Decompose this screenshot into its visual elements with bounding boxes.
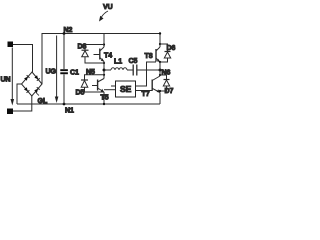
voltage arrow UN — [11, 48, 13, 101]
bridge diode mark TL — [24, 75, 29, 81]
svg-text:VU: VU — [103, 4, 113, 11]
node tee D6 bottom — [159, 61, 161, 63]
wire bridge left vertex to bottom rail — [17, 84, 22, 104]
terminal bottom — [7, 109, 13, 115]
load line right — [137, 69, 160, 71]
load line left — [104, 69, 111, 71]
node right top corner — [159, 32, 161, 34]
top rail N2 — [42, 33, 160, 35]
bridge diode mark TR — [34, 75, 39, 81]
svg-text:D5: D5 — [76, 90, 85, 97]
capacitor C1 — [63, 34, 65, 70]
svg-text:D8: D8 — [78, 44, 87, 51]
transistor T5 — [98, 79, 104, 83]
svg-text:UN: UN — [1, 77, 11, 84]
node tee D6 top — [159, 43, 161, 45]
bridge diode mark BR — [34, 87, 39, 93]
svg-text:C5: C5 — [129, 58, 138, 65]
node N1 dot — [63, 103, 66, 106]
node tee D5 top — [103, 74, 105, 76]
wire terminal-bottom to bridge — [13, 96, 32, 111]
left leg lower wire — [103, 92, 105, 104]
diode D6 — [160, 44, 168, 52]
inductor L1 — [111, 68, 127, 70]
wire SE right to T7 base — [136, 90, 153, 92]
node tee D7 top — [159, 74, 161, 76]
svg-text:T4: T4 — [104, 53, 112, 60]
bottom rail N1 — [17, 103, 160, 105]
node tee D7 bottom — [159, 90, 161, 92]
node N5 — [103, 69, 106, 72]
arrow VU — [102, 11, 109, 17]
voltage arrow UG — [56, 36, 58, 99]
diode D5 — [85, 75, 105, 80]
node left leg bottom — [103, 103, 105, 105]
svg-text:N1: N1 — [65, 108, 74, 115]
bridge rectifier GL diamond — [22, 72, 43, 96]
capacitor C5 — [132, 65, 134, 76]
bridge diode mark BL — [24, 87, 29, 93]
transistor T8 — [156, 47, 160, 51]
svg-text:N2: N2 — [64, 27, 73, 34]
svg-text:T8: T8 — [145, 53, 153, 60]
svg-text:SE: SE — [120, 84, 132, 94]
node N2 dot — [63, 32, 66, 35]
left leg wire to N5 — [103, 62, 105, 79]
node N6 — [159, 69, 162, 72]
svg-text:D7: D7 — [165, 88, 174, 95]
diode D7 — [160, 75, 167, 80]
svg-text:D6: D6 — [167, 45, 176, 52]
arrow GL — [36, 92, 39, 96]
svg-text:T7: T7 — [142, 91, 150, 98]
wire bridge right vertex to top rail — [41, 33, 43, 84]
node tee D8 bottom — [103, 62, 105, 64]
wire SE left stub — [111, 85, 116, 87]
diode D8 — [85, 45, 104, 51]
transistor T7 — [152, 76, 160, 81]
wire terminal-top to bridge — [13, 45, 33, 73]
svg-text:C1: C1 — [70, 70, 79, 77]
transistor T4 — [100, 47, 104, 51]
node tee D8 top — [103, 43, 105, 45]
control unit SE box — [116, 81, 136, 97]
svg-text:L1: L1 — [114, 59, 122, 66]
left leg upper wire — [103, 34, 105, 48]
wire SE left to leg — [104, 89, 116, 91]
wire L1 to C5 — [127, 69, 133, 71]
svg-text:T5: T5 — [101, 95, 109, 102]
terminal top — [8, 42, 14, 48]
right leg upper wire — [159, 34, 161, 48]
right leg wire to N6 — [159, 62, 161, 76]
svg-text:UG: UG — [46, 69, 57, 76]
wire SE right to T8 base — [136, 62, 157, 86]
right leg lower wire — [159, 93, 161, 105]
